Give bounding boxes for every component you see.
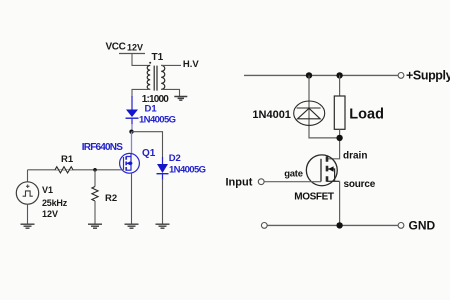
node A junction dot <box>129 130 133 134</box>
wire D1 to node A <box>131 124 133 132</box>
+Supply terminal <box>398 73 404 79</box>
svg-text:1N4001: 1N4001 <box>252 109 291 121</box>
svg-text:drain: drain <box>343 151 367 162</box>
svg-text:GND: GND <box>409 219 436 233</box>
svg-text:D1: D1 <box>145 104 158 115</box>
wire V1 to gate net <box>27 170 29 182</box>
svg-text:gate: gate <box>284 168 303 179</box>
GND bottom rail <box>267 224 398 226</box>
ground (Q1 source) <box>125 224 139 228</box>
ground (D2) <box>156 224 170 228</box>
wire load to drain node <box>328 129 340 159</box>
GND left terminal <box>261 223 267 229</box>
VCC power rail bar <box>119 53 145 55</box>
wire source to GND rail <box>339 181 341 225</box>
transformer phase dot <box>149 62 151 64</box>
ground (V1) <box>21 224 35 228</box>
+Supply top rail <box>244 74 398 76</box>
svg-text:IRF640NS: IRF640NS <box>82 142 123 153</box>
wire V1 to ground <box>27 204 29 224</box>
load resistor box <box>334 96 345 129</box>
svg-text:V1: V1 <box>42 185 53 195</box>
ground (R2) <box>88 224 102 228</box>
wire input to gate <box>264 181 321 183</box>
wire rail to diode, through to bottom <box>309 75 340 137</box>
svg-text:Input: Input <box>226 177 253 189</box>
transformer T1 primary winding <box>147 65 150 89</box>
diode D1 <box>126 96 139 125</box>
wire rail to load <box>339 75 341 96</box>
wire secondary top to H.V <box>161 64 181 66</box>
svg-text:Load: Load <box>349 106 384 122</box>
svg-text:T1: T1 <box>152 52 164 63</box>
Input terminal <box>258 179 264 185</box>
svg-text:H.V: H.V <box>183 59 200 70</box>
wire Q1 source to ground <box>131 173 133 224</box>
transformer core <box>154 66 157 91</box>
wire secondary bottom to ground <box>161 89 179 96</box>
svg-text:12V: 12V <box>42 209 58 219</box>
Q1 body-source dot <box>130 162 133 165</box>
resistor R1 <box>55 167 73 173</box>
svg-text:12V: 12V <box>127 43 143 53</box>
wire node A to Q1 drain <box>131 132 133 154</box>
transformer T1 secondary winding <box>161 65 165 89</box>
diode D2 <box>157 157 169 180</box>
MOSFET Q1 <box>120 153 140 173</box>
svg-text:Q1: Q1 <box>142 148 156 159</box>
wire D2 to ground <box>162 179 164 224</box>
svg-text:MOSFET: MOSFET <box>294 192 334 203</box>
svg-text:R2: R2 <box>105 193 117 204</box>
resistor R2 <box>92 187 98 201</box>
svg-text:D2: D2 <box>169 153 181 164</box>
wire R2 to ground <box>94 201 96 224</box>
junction dot (load bottom / diode) <box>336 135 342 141</box>
node B junction dot <box>93 168 97 172</box>
MOSFET body arrow <box>328 166 333 171</box>
junction dot (diode/top rail) <box>306 72 312 78</box>
MOSFET (right) <box>306 155 339 186</box>
wire primary bottom down <box>132 89 150 97</box>
Q1 body arrow <box>126 161 130 165</box>
svg-text:+Supply: +Supply <box>406 68 450 82</box>
svg-text:1N4005G: 1N4005G <box>169 165 206 176</box>
diode 1N4001 <box>294 101 325 125</box>
svg-text:VCC: VCC <box>106 41 126 52</box>
wire node B to R2 <box>94 170 96 187</box>
wire node A to D2 branch <box>132 132 163 159</box>
GND right terminal <box>398 223 404 229</box>
ground (transformer secondary) <box>174 97 187 101</box>
junction dot (source/GND rail) <box>336 222 342 228</box>
source V1 <box>16 182 38 204</box>
svg-text:1N4005G: 1N4005G <box>139 114 176 125</box>
svg-text:R1: R1 <box>61 154 74 165</box>
svg-text:source: source <box>344 179 376 190</box>
wire VCC to transformer primary <box>132 54 150 66</box>
gate net wire V1 to Q1 <box>28 169 124 171</box>
svg-text:25kHz: 25kHz <box>42 198 68 208</box>
junction dot (load/top rail) <box>336 72 342 78</box>
